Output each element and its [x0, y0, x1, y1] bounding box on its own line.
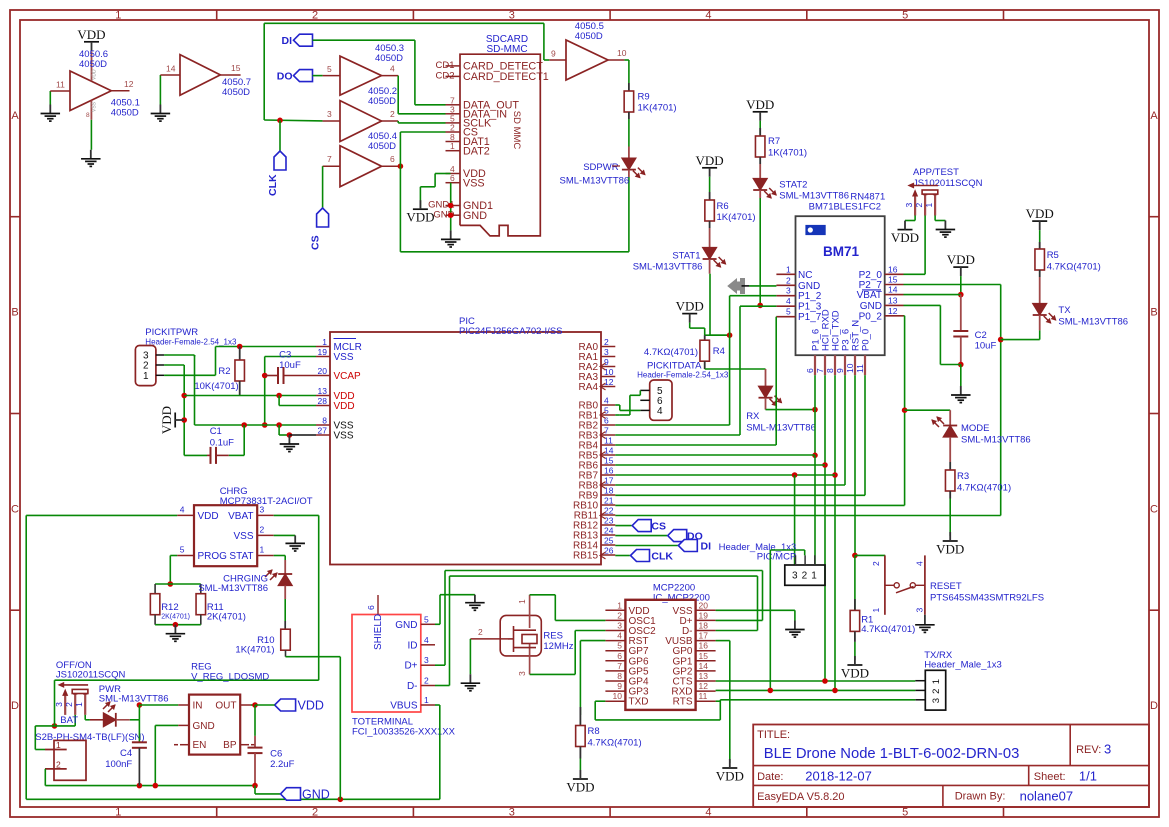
op-amp buffer U 4050.6/4050.1: [70, 71, 111, 111]
VDD net flag: [1032, 220, 1047, 222]
svg-text:3: 3: [260, 505, 265, 515]
svg-text:4: 4: [617, 631, 622, 641]
REG pin BP: [240, 744, 249, 746]
ground: [49, 105, 51, 114]
svg-text:4050D: 4050D: [375, 53, 403, 64]
svg-text:17: 17: [604, 476, 614, 486]
wire GND pin13 to C2 bottom: [904, 304, 941, 306]
svg-text:10: 10: [604, 367, 614, 377]
wire OUT to C6: [254, 705, 256, 736]
wire BAT pin1 to BAT+ node: [35, 749, 45, 751]
svg-text:PROG: PROG: [198, 551, 228, 562]
svg-text:OUT: OUT: [215, 701, 236, 712]
wire CHRG STAT to CHRGING: [274, 555, 286, 557]
svg-text:1K(4701): 1K(4701): [717, 212, 756, 223]
svg-text:4: 4: [180, 505, 185, 515]
svg-text:GND: GND: [463, 210, 487, 222]
svg-text:C1: C1: [210, 426, 222, 437]
SDCARD pin VDD: [446, 173, 461, 175]
wire R4 node to P1_2: [705, 334, 730, 336]
PIC pin 13 VDD: [316, 395, 330, 397]
svg-text:4050D: 4050D: [79, 59, 107, 70]
wire BM71 GND pin2: [742, 285, 750, 287]
svg-text:RESET: RESET: [930, 581, 962, 592]
ground: [450, 230, 452, 239]
SDCARD pin DAT2: [446, 150, 461, 152]
PIC pin 5 RB1: [601, 414, 615, 416]
svg-text:8: 8: [825, 368, 835, 373]
SDCARD pin CARD_DETECT1: [446, 75, 461, 77]
LED STAT2: [753, 179, 767, 191]
wire R12 R11 bottom row to ground: [155, 624, 201, 626]
svg-text:SML-M13VTT86: SML-M13VTT86: [1058, 317, 1128, 328]
svg-text:A: A: [11, 110, 19, 122]
wire R7 to STAT2: [759, 164, 761, 179]
BM71 pin 4 P1_3: [776, 305, 795, 307]
svg-text:6: 6: [450, 173, 455, 183]
svg-text:BP: BP: [223, 740, 237, 751]
svg-text:BAT: BAT: [60, 715, 78, 726]
wire STAT1 cathode to R4 node: [709, 259, 711, 274]
PIC pin 18 RB9: [601, 494, 615, 496]
wire BAT pin2 to gnd rail: [44, 768, 46, 770]
PIC pin 3 RA1: [601, 356, 615, 358]
svg-text:2: 2: [450, 123, 455, 133]
svg-text:11: 11: [855, 364, 865, 373]
wire VDD to R5: [1039, 230, 1041, 249]
net flag CLK: [274, 151, 286, 170]
svg-text:10uF: 10uF: [975, 341, 997, 352]
svg-text:NC: NC: [798, 270, 812, 281]
svg-text:RX: RX: [746, 411, 760, 422]
wire rail1 to GND flag: [254, 786, 256, 794]
svg-text:CS: CS: [651, 521, 666, 533]
svg-text:1: 1: [115, 807, 121, 819]
svg-text:GND: GND: [395, 620, 417, 631]
resistor R6 1K: [709, 192, 711, 200]
TOTERMINAL pin 4 ID: [421, 644, 435, 646]
ground: [288, 435, 290, 444]
svg-text:4.7KΩ(4701): 4.7KΩ(4701): [644, 347, 698, 358]
svg-text:12: 12: [604, 377, 614, 387]
wire TX cathode to P2_7 net: [1039, 315, 1041, 330]
SDCARD pin SCLK: [446, 122, 461, 124]
svg-text:6: 6: [617, 651, 622, 661]
wire HCI_TXD net: [834, 375, 836, 690]
wire header pin3 row join: [194, 355, 196, 425]
VDD net flag: [898, 229, 913, 231]
wire CHRG PROG to R11 R12: [170, 555, 177, 557]
svg-text:VDD: VDD: [198, 511, 219, 522]
svg-text:3: 3: [509, 10, 515, 22]
LED CHRGING flipped: [284, 560, 286, 574]
svg-text:SML-M13VTT86: SML-M13VTT86: [961, 435, 1031, 446]
svg-text:3: 3: [1104, 742, 1111, 757]
MCP2200 pin 13 CTS: [696, 680, 716, 682]
svg-text:13: 13: [888, 295, 898, 305]
svg-text:5: 5: [902, 807, 908, 819]
pin 6: [382, 165, 401, 167]
svg-text:17: 17: [699, 631, 709, 641]
svg-text:R6: R6: [717, 201, 729, 212]
VDD net flag: [682, 313, 697, 315]
wire switch pin2 to P2_0: [924, 216, 926, 275]
wire VSS20 row to ground: [716, 609, 795, 611]
MCP2200 pin 5 GP7: [605, 650, 625, 652]
wire buffer4050.3 out to DATA_IN: [397, 76, 399, 114]
CHRG pin 3 VBAT: [257, 514, 274, 516]
PIC pin 16 RB7: [601, 474, 615, 476]
svg-text:GND: GND: [193, 721, 215, 732]
MCP2200 pin 3 OSC2: [605, 630, 625, 632]
PIC pin 7 RB3: [601, 434, 615, 436]
PIC pin 14 RB5: [601, 454, 615, 456]
capacitor C6 2.2uF: [254, 736, 256, 748]
svg-text:8: 8: [322, 416, 327, 426]
crystal pin2 lead: [470, 638, 508, 640]
svg-text:SML-M13VTT86: SML-M13VTT86: [746, 423, 816, 434]
svg-text:15: 15: [888, 275, 898, 285]
MCP2200 pin 11 RTS: [696, 700, 716, 702]
wire STAT2 cathode to P1_3: [759, 190, 761, 198]
svg-text:DI: DI: [701, 541, 712, 553]
svg-text:28: 28: [318, 396, 328, 406]
svg-text:R9: R9: [638, 92, 650, 103]
PIC clock chevron: [600, 432, 606, 439]
svg-text:7: 7: [617, 661, 622, 671]
svg-text:PTS645SM43SMTR92LFS: PTS645SM43SMTR92LFS: [930, 593, 1044, 604]
svg-text:DI: DI: [282, 35, 293, 47]
svg-text:VDD: VDD: [77, 27, 105, 42]
svg-text:1: 1: [260, 545, 265, 555]
net flag CLK: [631, 550, 650, 562]
svg-text:VDD: VDD: [676, 299, 704, 314]
svg-text:15: 15: [231, 63, 241, 73]
op-amp buffer U 4050.3: [340, 56, 382, 95]
svg-text:5: 5: [424, 614, 429, 624]
svg-text:16: 16: [888, 264, 898, 274]
TOTERMINAL pin 6 SHIELD: [377, 595, 379, 615]
svg-text:RB15: RB15: [573, 551, 598, 562]
MCP2200 pin 14 GP2: [696, 670, 716, 672]
svg-text:nolane07: nolane07: [1020, 789, 1074, 804]
svg-text:13: 13: [699, 671, 709, 681]
svg-text:3: 3: [509, 807, 515, 819]
svg-text:Header-Female-2.54_1x3: Header-Female-2.54_1x3: [637, 371, 729, 380]
PIC pin 28 VDD: [316, 405, 330, 407]
wire VUSB to VDD: [716, 640, 730, 642]
svg-text:GND: GND: [302, 788, 330, 802]
svg-text:PICKITPWR: PICKITPWR: [145, 327, 198, 338]
svg-text:14: 14: [604, 446, 614, 456]
svg-text:4050D: 4050D: [222, 87, 250, 98]
wire RB7 to PICMCP pin3: [794, 475, 796, 565]
VDD net flag: [943, 540, 958, 542]
svg-text:R5: R5: [1047, 250, 1059, 261]
svg-text:GND: GND: [798, 281, 820, 292]
PIC pin 21 RB10: [601, 504, 615, 506]
SDCARD VDD wire to VDD flag: [435, 173, 450, 175]
svg-text:BM71BLES1FC2: BM71BLES1FC2: [809, 202, 881, 213]
SDCARD pin DAT1: [446, 141, 461, 143]
wire TOTERMINAL GND to ground: [435, 623, 440, 625]
svg-text:VSS: VSS: [233, 531, 253, 542]
svg-text:VBUS: VBUS: [390, 701, 418, 712]
resistor R2 10K: [239, 347, 241, 361]
svg-text:D+: D+: [404, 661, 417, 672]
svg-text:1: 1: [424, 695, 429, 705]
TOTERMINAL pin 5 GND: [421, 623, 435, 625]
wire switch pin1 to PWR LED: [84, 715, 86, 720]
wire VDD to VBAT row: [960, 276, 962, 295]
MCP2200 pin 18 D-: [696, 630, 716, 632]
MCP2200 pin 15 GP1: [696, 660, 716, 662]
BM71 pin 10 RST_N: [854, 355, 856, 375]
svg-text:CARD_DETECT1: CARD_DETECT1: [463, 71, 549, 83]
svg-text:2: 2: [478, 627, 483, 637]
wire VSS8 row: [195, 424, 317, 426]
wire R4 bottom to RX anode: [705, 368, 766, 370]
resistor R4 4.7K: [704, 335, 706, 340]
wire R6 to STAT1: [709, 228, 711, 248]
svg-text:JS102011SCQN: JS102011SCQN: [913, 178, 983, 189]
BM71 pin 7 HCI_RXD: [824, 355, 826, 375]
svg-text:3: 3: [54, 702, 64, 707]
BM71 pin 3 P1_2: [776, 295, 795, 297]
MCP2200 pin 8 GP4: [605, 680, 625, 682]
svg-text:10uF: 10uF: [279, 360, 301, 371]
svg-text:21: 21: [604, 496, 614, 506]
connector TOTERMINAL box: [352, 615, 421, 713]
connector PICKITPWR box: [135, 346, 156, 386]
svg-text:2.2uF: 2.2uF: [270, 759, 294, 770]
svg-text:7: 7: [327, 154, 332, 164]
net flag CS: [317, 208, 329, 227]
crystal RES 12MHz: [500, 615, 541, 656]
wire RST to R8: [580, 640, 605, 642]
resistor R8 4.7K: [579, 707, 581, 726]
REG pin IN: [178, 704, 189, 706]
switch RESET PTS645: [884, 555, 886, 614]
svg-text:VDD: VDD: [746, 97, 774, 112]
BAT pin 2: [45, 768, 67, 770]
wire VBAT to C2: [960, 295, 962, 331]
LED STAT1: [703, 248, 717, 260]
svg-text:1: 1: [450, 141, 455, 151]
VDD net flag: [722, 767, 737, 769]
resistor R9 1K: [628, 83, 630, 91]
svg-text:5: 5: [902, 10, 908, 22]
svg-text:C: C: [11, 503, 19, 515]
CHRG pin 1 STAT: [257, 555, 274, 557]
LED TX: [1033, 304, 1047, 316]
svg-text:4: 4: [705, 807, 711, 819]
SDCARD pin VSS: [446, 182, 461, 184]
svg-text:VDD: VDD: [298, 699, 324, 713]
svg-text:C4: C4: [120, 748, 132, 759]
PIC pin 1 MCLR: [316, 346, 330, 348]
svg-text:9: 9: [551, 49, 556, 59]
MCP2200 pin 7 GP5: [605, 670, 625, 672]
svg-text:2: 2: [604, 337, 609, 347]
wire VSS to ground: [90, 120, 92, 150]
wire RB15 to CLK: [615, 555, 630, 557]
svg-text:TXD: TXD: [629, 697, 649, 708]
IC REG box: [189, 695, 240, 755]
PIC pin 9 RA2: [601, 366, 615, 368]
svg-text:Sheet:: Sheet:: [1034, 771, 1066, 783]
svg-text:3: 3: [915, 608, 925, 613]
wire RST_N net: [854, 375, 856, 555]
resistor R12 2K: [154, 584, 156, 594]
svg-text:P0_0: P0_0: [861, 329, 872, 351]
svg-text:Header-Female-2.54_1x3: Header-Female-2.54_1x3: [145, 338, 237, 347]
connector BAT box: [54, 740, 86, 780]
wire buffer 4050.4 out down to SDPWR return: [399, 166, 401, 252]
IC PIC24FJ256GA702 box: [330, 332, 601, 565]
capacitor C2 10uF: [953, 330, 968, 332]
svg-text:2018-12-07: 2018-12-07: [805, 769, 872, 784]
svg-text:VDD: VDD: [936, 542, 964, 557]
BM71 pin 1 NC: [776, 273, 795, 275]
BAT pin 1: [45, 749, 67, 751]
wire VBAT: [904, 294, 961, 296]
svg-text:R8: R8: [588, 726, 600, 737]
svg-text:GND: GND: [860, 301, 882, 312]
svg-text:STAT: STAT: [229, 551, 253, 562]
svg-text:4: 4: [390, 64, 395, 74]
wire PICKITPWR pin2 to VDD net: [164, 364, 184, 366]
PIC clock chevron: [600, 482, 606, 489]
svg-text:A: A: [1150, 110, 1158, 122]
connector PIC/MCP box: [785, 565, 825, 585]
svg-text:10: 10: [613, 691, 623, 701]
svg-text:Drawn By:: Drawn By:: [955, 791, 1006, 803]
net flag VDD blue: [275, 699, 296, 711]
VDD net flag: [702, 167, 717, 169]
CHRG pin 4 VDD: [177, 514, 194, 516]
svg-text:10: 10: [617, 48, 627, 58]
pin 3: [323, 120, 340, 122]
svg-text:PIC/MCP: PIC/MCP: [757, 552, 797, 563]
svg-text:13: 13: [318, 386, 328, 396]
svg-text:3: 3: [792, 571, 798, 582]
svg-text:CD1: CD1: [435, 60, 454, 71]
ground: [90, 150, 92, 159]
svg-text:D: D: [11, 700, 19, 712]
wire D- net: [716, 630, 758, 632]
svg-text:V_REG_LDOSMD: V_REG_LDOSMD: [191, 672, 269, 683]
wire switch pin1 to ground: [934, 216, 936, 221]
svg-text:CS: CS: [310, 235, 322, 250]
wire P2_7 net: [904, 284, 1001, 286]
svg-text:6: 6: [366, 605, 376, 610]
PIC clock chevron: [600, 512, 606, 519]
PIC pin 20 VCAP: [316, 375, 330, 377]
PIC clock chevron: [600, 412, 606, 419]
SDCARD pin DATA_IN: [446, 113, 461, 115]
wire VDD to R7: [759, 121, 761, 135]
svg-text:S2B-PH-SM4-TB(LF)(SN): S2B-PH-SM4-TB(LF)(SN): [35, 732, 144, 743]
svg-text:DAT2: DAT2: [463, 145, 490, 157]
pin 10: [608, 59, 624, 61]
pin 4: [382, 75, 399, 77]
svg-text:VDD: VDD: [841, 666, 869, 681]
svg-text:27: 27: [318, 426, 328, 436]
MCP2200 pin 16 GP0: [696, 650, 716, 652]
wire PICKITPWR pin3 to VSS19: [164, 354, 194, 356]
PIC pin 22 RB11: [601, 514, 615, 516]
svg-text:5: 5: [617, 641, 622, 651]
PIC pin 12 RA4: [601, 386, 615, 388]
wire P1_3 net: [740, 305, 776, 307]
svg-text:SD MMC: SD MMC: [511, 111, 522, 150]
wire C4 node: [138, 720, 140, 743]
wire P0_0 net: [864, 375, 866, 495]
PIC pin 23 RB12: [601, 524, 615, 526]
svg-text:1: 1: [143, 371, 149, 382]
op-amp buffer U 4050.2: [340, 101, 382, 142]
svg-text:P0_2: P0_2: [859, 311, 883, 322]
BM71 pin 13 GND: [885, 304, 904, 306]
svg-text:RA4: RA4: [579, 382, 599, 393]
svg-text:20: 20: [699, 600, 709, 610]
wire CLK flag stub: [279, 120, 281, 151]
wire MCLR row: [216, 346, 317, 348]
wire P1_7 net: [775, 316, 777, 318]
gnd rail1: [45, 785, 255, 787]
svg-text:R2: R2: [218, 366, 230, 377]
svg-text:4: 4: [604, 396, 609, 406]
PIC pin 11 RB4: [601, 444, 615, 446]
svg-text:8: 8: [617, 671, 622, 681]
wire VBUS down to rail: [435, 704, 440, 706]
svg-text:VDD: VDD: [334, 401, 355, 412]
wire R5 to TX LED: [1039, 277, 1041, 304]
wire crystal pin3 to OSC2: [530, 673, 576, 675]
svg-text:2: 2: [424, 676, 429, 686]
svg-text:2: 2: [871, 561, 881, 566]
VDD net flag: [84, 41, 99, 43]
pin 14: [160, 74, 180, 76]
svg-text:0.1uF: 0.1uF: [210, 438, 234, 449]
svg-text:VSS: VSS: [92, 101, 98, 112]
svg-text:11: 11: [604, 436, 613, 446]
svg-text:APP/TEST: APP/TEST: [913, 167, 959, 178]
BM71 pin 8 HCI_TXD: [834, 355, 836, 375]
svg-text:2: 2: [390, 109, 395, 119]
wire crystal pin2 to ground: [469, 639, 471, 674]
svg-text:4.7KΩ(4701): 4.7KΩ(4701): [1047, 262, 1101, 273]
svg-text:1K(4701): 1K(4701): [235, 645, 274, 656]
wire VSS27 branch: [278, 425, 280, 435]
svg-text:VCAP: VCAP: [334, 371, 362, 382]
op-amp buffer U 4050.5: [566, 40, 608, 80]
svg-text:5: 5: [180, 545, 185, 555]
PIC pin 8 VSS: [316, 424, 330, 426]
BM71 pin 11 P0_0: [864, 355, 866, 375]
svg-text:DO: DO: [277, 71, 293, 83]
wire CHRG VDD to +5 rail: [26, 514, 177, 516]
svg-text:SHIELD: SHIELD: [373, 614, 384, 650]
MCP2200 pin 4 RST: [605, 640, 625, 642]
svg-text:P1_7: P1_7: [798, 312, 822, 323]
gray net arrow GND: [728, 279, 745, 294]
svg-text:2K(4701): 2K(4701): [161, 614, 190, 621]
svg-text:1K(4701): 1K(4701): [638, 103, 677, 114]
wire CS net to SDCARD CS pin: [398, 163, 404, 169]
PIC clock chevron: [600, 383, 606, 390]
